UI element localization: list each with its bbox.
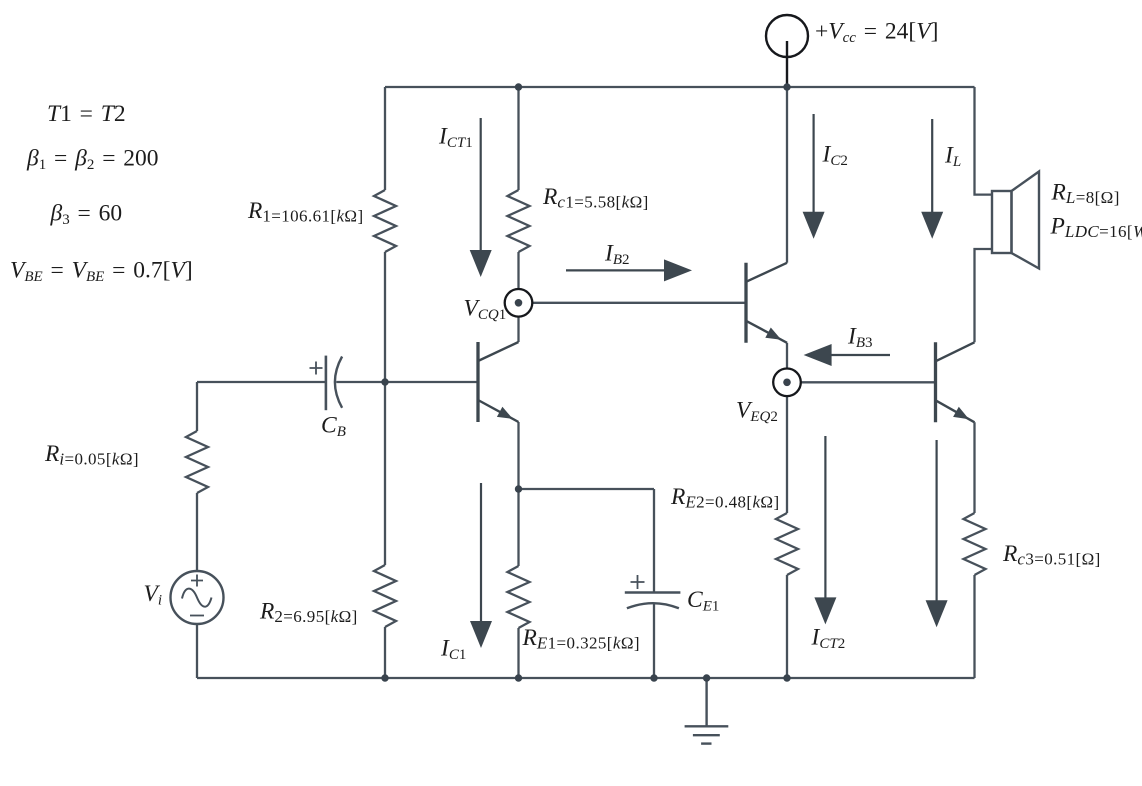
wire node VCQ1 to Q2 base: [532, 302, 746, 304]
wire Rc3 bottom to rail: [973, 575, 975, 678]
svg-text:β1 = β2 = 200: β1 = β2 = 200: [26, 146, 159, 174]
svg-text:β3 = 60: β3 = 60: [50, 201, 123, 229]
wire Ri to Vi: [196, 493, 198, 571]
svg-text:CB: CB: [321, 413, 346, 441]
svg-text:IB3: IB3: [847, 324, 873, 352]
wire CE1 bottom lead: [653, 604, 655, 678]
svg-text:IL: IL: [944, 143, 961, 171]
svg-text:PLDC=16[W: PLDC=16[W: [1050, 214, 1142, 242]
current arrow IB3: [804, 344, 890, 366]
resistor RE2 body: [776, 513, 798, 575]
resistor R1 body: [374, 190, 396, 252]
voltage source Vi: [171, 571, 224, 624]
current arrow IL: [921, 119, 943, 239]
wire Q1 emitter to node E1: [517, 422, 519, 489]
svg-text:ICT2: ICT2: [811, 625, 846, 653]
wire CE1 top lead: [653, 489, 655, 592]
transistor Q1: [478, 342, 519, 422]
transistor Q3: [936, 342, 975, 422]
wire Vcc center line to Q2 collector: [786, 87, 788, 263]
svg-text:IB2: IB2: [604, 241, 630, 269]
resistor Rc3 body: [964, 513, 986, 575]
wire Rc1 bottom to node VCQ1: [517, 252, 519, 289]
wire Rc1 top lead from rail: [517, 87, 519, 190]
wire Vi to bottom rail: [196, 624, 198, 678]
svg-text:VBE = VBE = 0.7[V]: VBE = VBE = 0.7[V]: [10, 258, 193, 286]
current arrow ICT2: [814, 436, 836, 624]
speaker RL: [992, 172, 1039, 269]
current arrow Q3 emitter current: [926, 440, 948, 627]
resistor RE1 body: [508, 566, 530, 628]
resistor Ri body: [186, 431, 208, 493]
svg-text:R2=6.95[kΩ]: R2=6.95[kΩ]: [259, 599, 358, 627]
wire Q2 emitter to node VEQ2: [786, 343, 788, 369]
svg-text:Vi: Vi: [144, 581, 163, 609]
node VCQ1 circle: [505, 289, 533, 317]
node VEQ2 circle: [773, 369, 801, 397]
svg-text:Ri=0.05[kΩ]: Ri=0.05[kΩ]: [44, 441, 139, 469]
svg-text:CE1: CE1: [687, 587, 719, 615]
svg-text:RL=8[Ω]: RL=8[Ω]: [1051, 180, 1120, 208]
svg-text:Rc3=0.51[Ω]: Rc3=0.51[Ω]: [1002, 541, 1101, 569]
svg-text:R1=106.61[kΩ]: R1=106.61[kΩ]: [247, 198, 364, 226]
wire R1 bottom to input junction: [384, 252, 386, 565]
current arrow IC2: [803, 114, 825, 239]
capacitor CB: [310, 356, 343, 411]
resistor Rc1 body: [508, 190, 530, 252]
wire R1 top lead from rail: [384, 87, 386, 190]
capacitor CE1: [625, 575, 681, 608]
Vcc source circle: [766, 15, 808, 87]
svg-text:+Vcc = 24[V]: +Vcc = 24[V]: [815, 19, 938, 47]
svg-text:VEQ2: VEQ2: [736, 398, 778, 426]
svg-text:Rc1=5.58[kΩ]: Rc1=5.58[kΩ]: [542, 184, 649, 212]
wire node VCQ1 to Q1 collector: [517, 317, 519, 342]
wire Q3 emitter to Rc3: [973, 422, 975, 513]
wire input node to CB left plate: [197, 381, 326, 383]
wire RE1 bottom to rail: [517, 628, 519, 678]
wire node VEQ2 down to RE2: [786, 396, 788, 513]
wire right branch from rail to speaker top: [975, 87, 993, 195]
wire speaker bottom to Q3 collector: [975, 249, 993, 342]
wire node E1 down to RE1: [517, 489, 519, 566]
svg-text:RE1=0.325[kΩ]: RE1=0.325[kΩ]: [522, 625, 640, 653]
svg-text:RE2=0.48[kΩ]: RE2=0.48[kΩ]: [670, 484, 780, 512]
transistor Q2: [746, 263, 787, 343]
wire R2 bottom to rail: [384, 627, 386, 678]
svg-text:ICT1: ICT1: [438, 124, 473, 152]
wire CB right to Q1 base: [336, 381, 478, 383]
svg-text:IC2: IC2: [822, 142, 848, 170]
current arrow IB2: [566, 259, 692, 281]
wire node VEQ2 to Q3 base: [801, 381, 936, 383]
svg-text:T1 = T2: T1 = T2: [47, 101, 126, 127]
current arrow ICT1: [470, 118, 492, 277]
wire RE2 bottom to rail: [786, 575, 788, 678]
wire left branch top lead: [196, 382, 198, 431]
wire top rail: [385, 86, 975, 88]
ground: [685, 678, 729, 744]
wire node E1 to CE1 top: [519, 488, 655, 490]
svg-text:IC1: IC1: [440, 636, 466, 664]
resistor R2 body: [374, 565, 396, 627]
current arrow IC1: [470, 483, 492, 648]
svg-text:VCQ1: VCQ1: [464, 296, 507, 324]
wire bottom rail (ground net): [197, 677, 975, 679]
